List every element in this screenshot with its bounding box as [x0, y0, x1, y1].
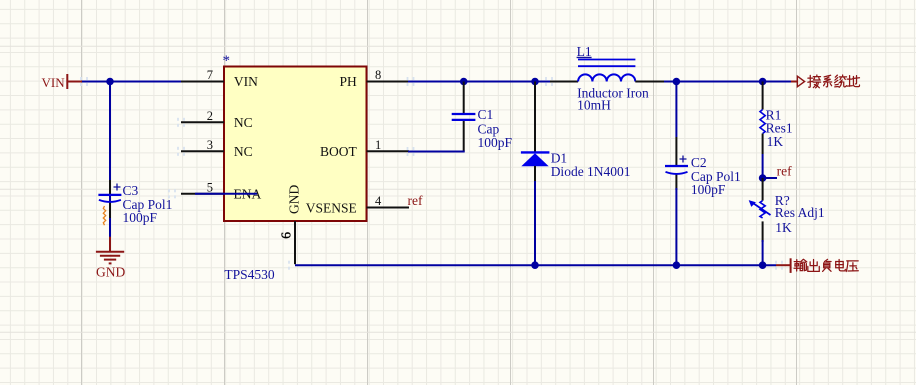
- port label 接系统地: [808, 75, 821, 88]
- capacitor C3 labels: [114, 183, 173, 225]
- capacitor C1 plates: [452, 113, 476, 115]
- svg-text:NC: NC: [234, 144, 253, 159]
- capacitor C1 pins: [463, 82, 465, 114]
- node junction R1: [759, 78, 767, 86]
- svg-text:ref: ref: [777, 164, 792, 179]
- svg-text:BOOT: BOOT: [320, 144, 358, 159]
- error squiggle marker: [103, 206, 105, 225]
- wire L1 to port: [664, 81, 791, 83]
- pin 3: [181, 150, 224, 152]
- wire endpoint markers NC pins: [178, 118, 184, 127]
- port system-ground (接系统地): [791, 81, 797, 83]
- wire ENA stub: [195, 193, 257, 195]
- wire BOOT to C1: [408, 151, 465, 153]
- svg-text:L1: L1: [577, 44, 592, 59]
- wire pin8 to L1: [408, 81, 550, 83]
- svg-text:100pF: 100pF: [691, 182, 726, 197]
- op-amp/regulator U1 TPS4530 body: [224, 67, 367, 222]
- wire C3 branch vertical: [109, 82, 111, 238]
- node junction VIN/C3: [106, 78, 114, 86]
- pin 2: [181, 121, 224, 123]
- node junction C1: [460, 78, 468, 86]
- ground GND: [96, 237, 124, 264]
- node junction C2: [673, 78, 681, 86]
- pin 8: [367, 81, 410, 83]
- svg-text:6: 6: [279, 232, 294, 239]
- pin 1: [367, 150, 410, 152]
- node junction D1/bottom: [531, 261, 539, 269]
- svg-text:4: 4: [375, 194, 382, 208]
- wire VIN to pin7: [82, 81, 181, 83]
- svg-text:GND: GND: [287, 185, 302, 214]
- svg-text:8: 8: [375, 68, 381, 82]
- svg-text:100pF: 100pF: [478, 135, 513, 150]
- svg-text:3: 3: [207, 138, 213, 152]
- pin 7: [181, 81, 224, 83]
- svg-text:5: 5: [207, 180, 213, 194]
- svg-text:10mH: 10mH: [577, 97, 611, 112]
- svg-text:*: *: [223, 53, 231, 69]
- svg-text:C3: C3: [123, 183, 139, 198]
- svg-text:VIN: VIN: [234, 74, 258, 89]
- resistor R1: [762, 82, 764, 110]
- port output-negative-voltage (输出负电压): [776, 264, 791, 266]
- node junction D1: [531, 78, 539, 86]
- svg-text:TPS4530: TPS4530: [224, 267, 275, 282]
- inductor L1: [550, 81, 578, 83]
- pin 5: [181, 193, 224, 195]
- diode D1: [534, 82, 536, 153]
- svg-text:VIN: VIN: [42, 75, 66, 90]
- svg-text:7: 7: [207, 68, 213, 82]
- wire bottom net: [295, 264, 776, 266]
- svg-text:VSENSE: VSENSE: [306, 200, 357, 215]
- port label 输出负电压: [794, 259, 807, 271]
- svg-text:1K: 1K: [767, 134, 784, 149]
- node junction R?/bottom: [759, 261, 767, 269]
- wire ref stub: [763, 177, 777, 179]
- capacitor C3 pins: [109, 180, 111, 194]
- potentiometer R? Res Adj1: [762, 178, 764, 201]
- svg-text:Diode 1N4001: Diode 1N4001: [551, 164, 631, 179]
- svg-text:PH: PH: [340, 74, 358, 89]
- svg-text:1: 1: [375, 138, 381, 152]
- capacitor C2 labels: [680, 156, 687, 163]
- node junction C2/bottom: [673, 261, 681, 269]
- svg-text:NC: NC: [234, 115, 253, 130]
- svg-text:100pF: 100pF: [123, 210, 158, 225]
- svg-text:Res Adj1: Res Adj1: [775, 205, 825, 220]
- svg-text:GND: GND: [96, 265, 125, 280]
- node junction ref: [759, 174, 767, 182]
- capacitor C2 plates: [665, 165, 688, 167]
- svg-text:1K: 1K: [775, 220, 792, 235]
- svg-text:2: 2: [207, 109, 213, 123]
- port VIN: [42, 74, 83, 90]
- capacitor C2 pins: [675, 82, 677, 138]
- svg-text:ref: ref: [408, 193, 423, 208]
- capacitor C3 plates: [98, 194, 121, 196]
- pin 4: [367, 207, 410, 209]
- svg-text:C2: C2: [691, 155, 707, 170]
- svg-text:C1: C1: [478, 107, 494, 122]
- pin 6: [294, 221, 296, 264]
- wire endpoint marker pin6: [288, 261, 290, 270]
